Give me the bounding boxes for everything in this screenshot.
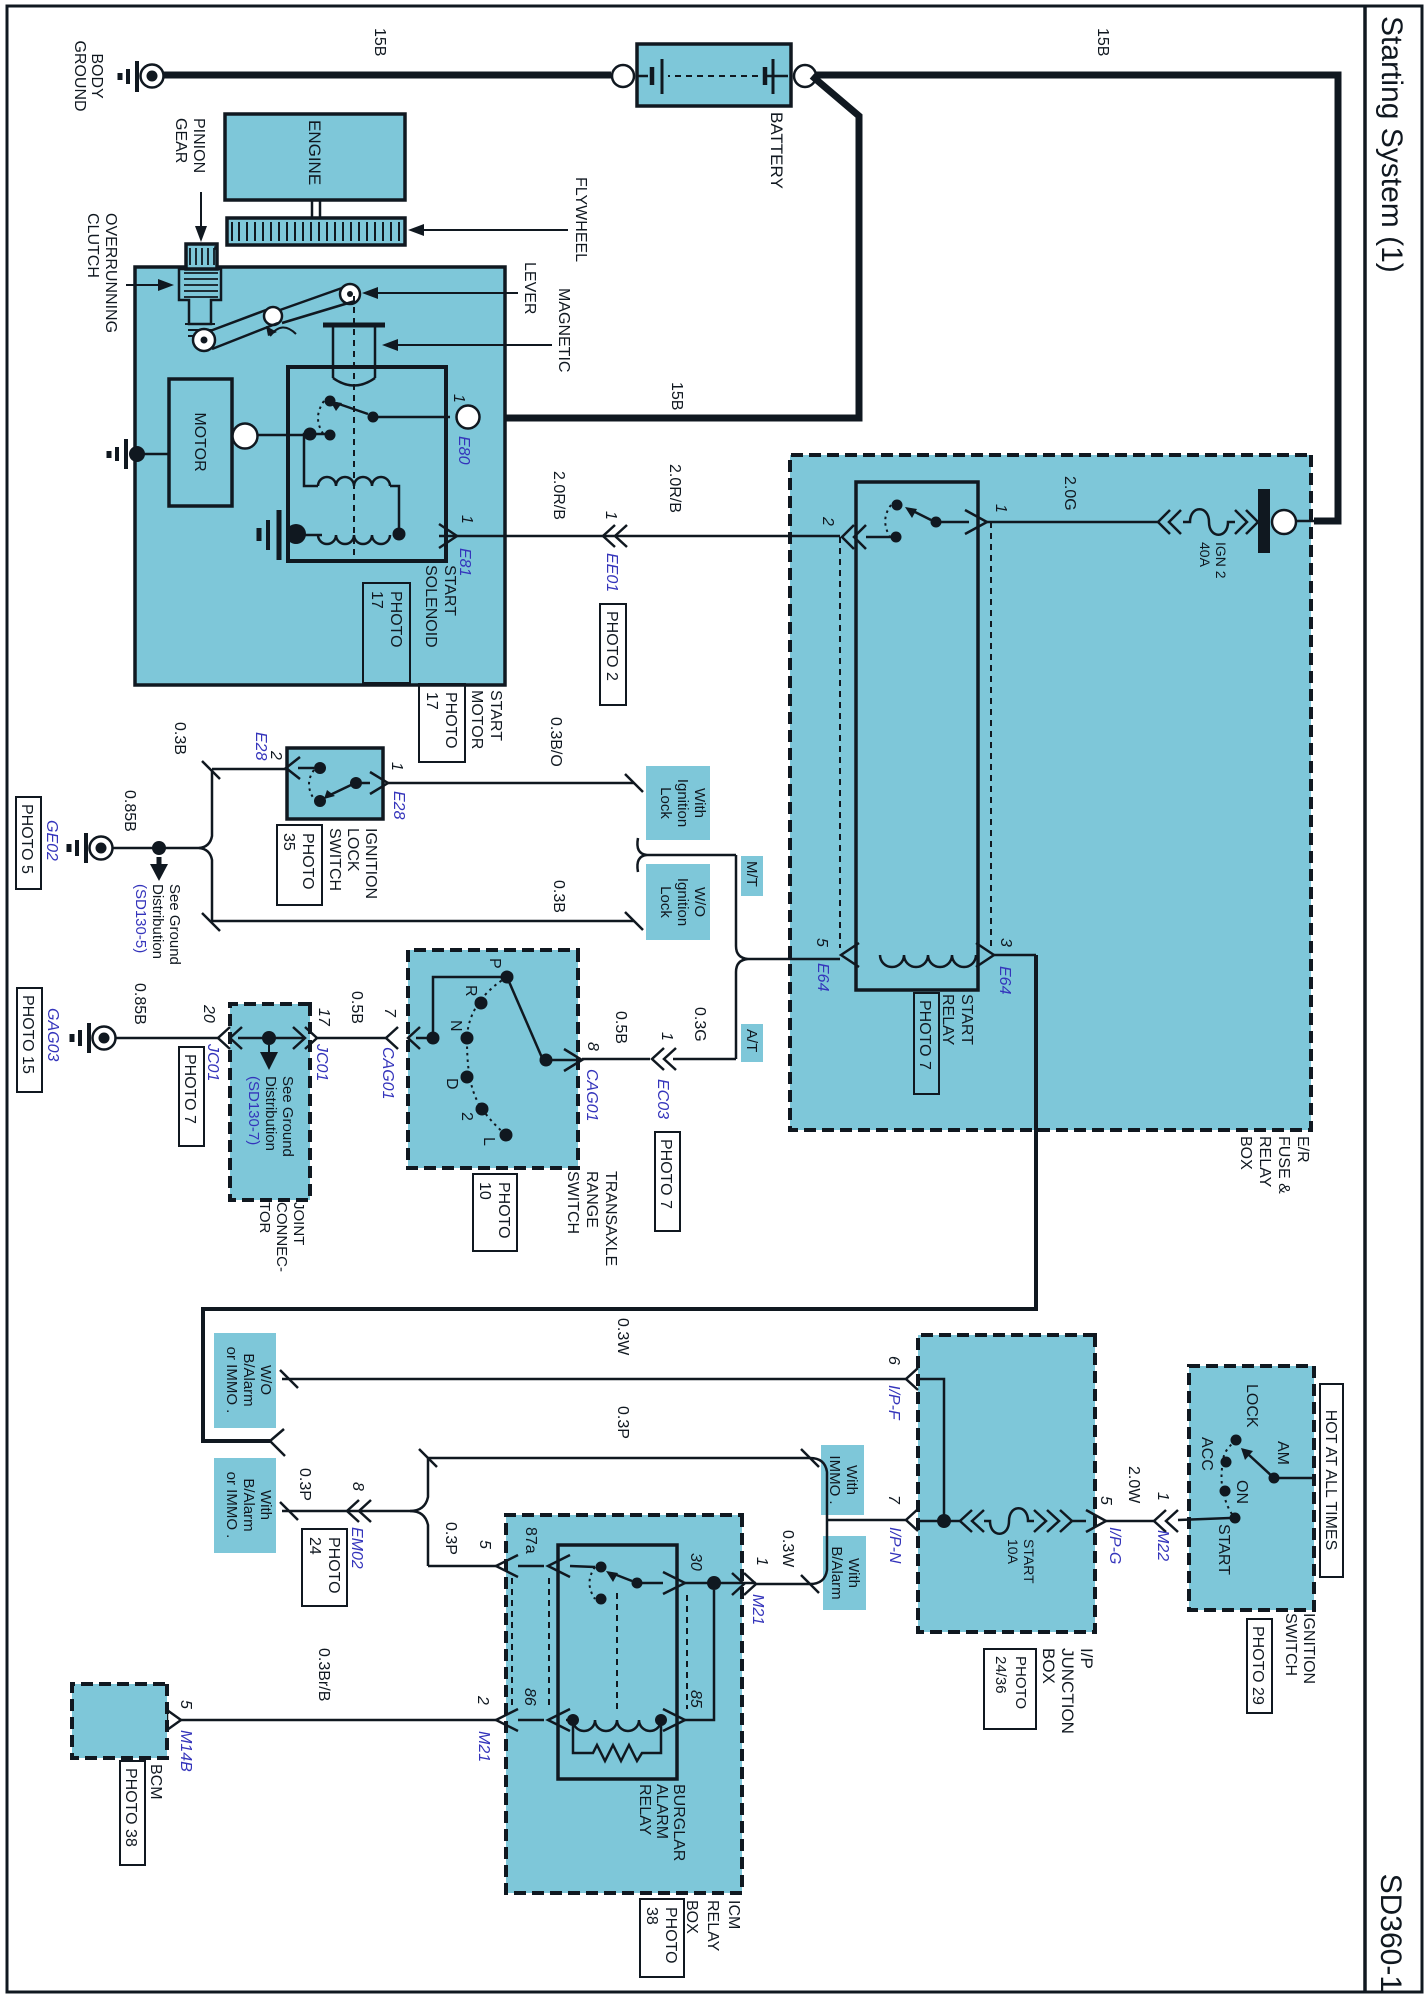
solenoid switch contacts: [257, 396, 450, 441]
svg-text:PINIONGEAR: PINIONGEAR: [172, 118, 207, 173]
svg-text:ENGINE: ENGINE: [305, 120, 324, 185]
wire M/T branch: [647, 854, 736, 857]
svg-text:Distribution: Distribution: [262, 1076, 279, 1151]
wire 0.3W to I/P-F: [280, 1370, 906, 1388]
svg-text:HOT AT ALL TIMES: HOT AT ALL TIMES: [1322, 1410, 1339, 1551]
battery B1: [636, 44, 791, 106]
E28 switch contacts: [309, 762, 362, 807]
label PINION GEAR with arrow: [172, 118, 207, 242]
svg-text:1: 1: [992, 504, 1009, 513]
label PHOTO 29: [1247, 1619, 1272, 1713]
svg-text:EC03: EC03: [654, 1079, 671, 1119]
svg-text:5: 5: [476, 1540, 493, 1549]
svg-text:7: 7: [381, 1008, 398, 1018]
solenoid hold-in coil: [302, 528, 406, 545]
svg-text:2: 2: [267, 750, 284, 760]
ignition lock switch box E28: [287, 748, 383, 819]
svg-text:2.0R/B: 2.0R/B: [550, 471, 567, 520]
wire 0.3B E28-2 to ground junction: [212, 768, 286, 771]
svg-text:JOINTCONNEC-TOR: JOINTCONNEC-TOR: [256, 1202, 307, 1272]
burglar relay pin 85: [663, 1690, 704, 1731]
svg-text:1: 1: [658, 1032, 675, 1041]
svg-text:PHOTO38: PHOTO38: [643, 1907, 679, 1964]
svg-text:15B: 15B: [1094, 28, 1111, 56]
svg-text:2.0G: 2.0G: [1061, 476, 1078, 511]
ICM pin 2 (M21): [474, 1695, 518, 1762]
wire pin5 to 87a: [518, 1566, 544, 1720]
svg-text:2.0R/B: 2.0R/B: [666, 464, 683, 513]
label PHOTO 24/36: [984, 1649, 1036, 1729]
svg-text:N: N: [447, 1020, 464, 1032]
overrunning clutch: [179, 248, 221, 336]
label PHOTO 17 (start motor): [419, 684, 465, 762]
svg-text:1: 1: [753, 1557, 770, 1566]
ICM pin 5 (M21): [476, 1540, 518, 1577]
transaxle range switch contacts: [427, 958, 581, 1146]
svg-text:PHOTO10: PHOTO10: [476, 1182, 512, 1239]
junction node GE02 branch: [152, 761, 220, 931]
svg-text:0.3P: 0.3P: [296, 1468, 313, 1501]
svg-text:17: 17: [315, 1008, 332, 1027]
E/R fuse and relay box: [790, 455, 1311, 1130]
svg-text:PHOTO24: PHOTO24: [306, 1537, 342, 1594]
svg-text:0.3B: 0.3B: [550, 880, 567, 913]
svg-text:MAGNETIC: MAGNETIC: [555, 288, 572, 372]
svg-text:LEVER: LEVER: [521, 262, 538, 314]
label PHOTO 24: [302, 1529, 347, 1606]
start motor box: [135, 267, 505, 685]
svg-text:(SD130-5): (SD130-5): [132, 884, 149, 953]
fuse START 10A: [944, 1508, 1072, 1584]
burglar relay resistor: [573, 1720, 661, 1761]
svg-text:M22: M22: [1154, 1530, 1171, 1561]
svg-text:PHOTO 2: PHOTO 2: [603, 611, 620, 681]
wire trunk E64-3 to B/Alarm fork: [203, 955, 1036, 1441]
label PHOTO 38 (ICM): [640, 1899, 684, 1977]
svg-text:See Ground: See Ground: [166, 884, 183, 965]
svg-text:I/P-F: I/P-F: [885, 1385, 902, 1421]
svg-text:0.3P: 0.3P: [614, 1406, 631, 1439]
I/P junction box: [918, 1335, 1095, 1632]
svg-text:0.3W: 0.3W: [779, 1530, 796, 1568]
wire 0.3B/O E28-1 up: [388, 774, 643, 792]
solenoid pull-in coil: [304, 434, 399, 534]
merge brace to I/P-N: [801, 1449, 906, 1593]
motor box: [169, 379, 232, 506]
svg-text:R: R: [462, 985, 479, 997]
svg-text:8: 8: [349, 1482, 366, 1491]
start relay contacts: [819, 500, 1009, 550]
svg-text:15B: 15B: [371, 28, 388, 56]
label OVERRUNNING CLUTCH with arrow: [84, 213, 174, 333]
svg-text:Distribution: Distribution: [149, 884, 166, 959]
start relay E64 dashed pin lines: [840, 522, 991, 950]
svg-text:L: L: [480, 1137, 497, 1146]
svg-text:PHOTO 29: PHOTO 29: [1249, 1626, 1266, 1705]
svg-text:1: 1: [388, 762, 405, 771]
svg-text:0.3G: 0.3G: [691, 1007, 708, 1042]
terminal I/P-N 7: [885, 1495, 918, 1564]
svg-text:E80: E80: [455, 436, 472, 465]
svg-text:AM: AM: [1274, 1441, 1291, 1465]
label PHOTO 5: [16, 797, 41, 889]
svg-text:1: 1: [450, 394, 467, 403]
label PHOTO 7 (JC01): [179, 1047, 204, 1146]
body ground: [120, 61, 164, 92]
svg-text:D: D: [443, 1078, 460, 1090]
svg-text:I/P-G: I/P-G: [1106, 1527, 1123, 1564]
start relay rectangle: [856, 482, 978, 990]
wire 0.3P With IMMO branch: [419, 1449, 810, 1467]
svg-text:86: 86: [521, 1688, 538, 1706]
svg-text:3: 3: [997, 938, 1014, 947]
battery terminal circles: [794, 65, 816, 87]
svg-text:M21: M21: [475, 1731, 492, 1762]
svg-text:LOCK: LOCK: [1243, 1384, 1260, 1428]
svg-text:7: 7: [885, 1495, 902, 1505]
wire 15B battery to body ground: [158, 72, 611, 79]
svg-text:5: 5: [177, 1700, 194, 1709]
fork W/O With B/Alarm: [270, 1429, 285, 1456]
label PHOTO 15: [17, 988, 42, 1092]
start relay coil: [813, 938, 1014, 995]
label box W/O Ignition Lock: [646, 864, 710, 940]
solenoid plunger dashed axis: [353, 296, 355, 560]
svg-text:TRANSAXLERANGESWITCH: TRANSAXLERANGESWITCH: [564, 1171, 619, 1266]
svg-text:M/T: M/T: [743, 861, 760, 887]
label box A/T: [741, 1024, 763, 1062]
burglar relay dashed actuator line: [616, 1593, 618, 1714]
label FLYWHEEL with arrow: [408, 177, 589, 262]
svg-text:PHOTO 38: PHOTO 38: [122, 1768, 139, 1847]
wire 2.0R/B E81 to E/R box: [457, 535, 840, 538]
wire 0.3W M21-1 branch: [756, 1583, 810, 1586]
svg-text:0.3B/O: 0.3B/O: [547, 717, 564, 767]
svg-text:JC01: JC01: [204, 1043, 221, 1081]
svg-text:M14B: M14B: [177, 1730, 194, 1772]
svg-text:E28: E28: [252, 732, 269, 761]
svg-text:0.5B: 0.5B: [348, 991, 365, 1024]
svg-text:2: 2: [819, 516, 836, 526]
wire A/T EC03 branch: [673, 1058, 736, 1061]
wire M/T A/T join to E64-5: [736, 855, 840, 1059]
svg-text:GE02: GE02: [43, 820, 60, 861]
svg-text:0.3Br/B: 0.3Br/B: [315, 1648, 332, 1701]
svg-text:PHOTO 7: PHOTO 7: [181, 1054, 198, 1124]
wire 0.3P to EM02: [280, 1502, 410, 1520]
svg-text:STARTMOTOR: STARTMOTOR: [468, 690, 504, 749]
burglar alarm relay rectangle: [558, 1545, 677, 1779]
connector M14B pin 5: [167, 1700, 194, 1772]
svg-text:CAG01: CAG01: [379, 1047, 396, 1099]
svg-text:M21: M21: [749, 1594, 766, 1625]
flywheel: [227, 218, 405, 245]
ICM relay box: [506, 1515, 742, 1893]
transaxle range switch box: [408, 950, 578, 1168]
svg-text:START: START: [1215, 1524, 1232, 1575]
svg-text:I/P-N: I/P-N: [886, 1527, 903, 1564]
svg-text:1: 1: [602, 511, 619, 520]
burglar relay coil: [567, 1714, 667, 1731]
label PHOTO 17 (solenoid): [363, 583, 410, 683]
svg-text:E64: E64: [814, 963, 831, 992]
see ground distribution arrow (JC01): [245, 1045, 296, 1157]
svg-text:E81: E81: [456, 548, 473, 576]
wire 15B battery to E80 (thick): [480, 76, 859, 418]
label PHOTO 10: [473, 1174, 517, 1251]
JC01 internal wire and junction: [238, 1031, 304, 1045]
motor ground: [109, 439, 169, 469]
ignition switch contacts: [1178, 1384, 1312, 1575]
E28 terminal 1: [351, 762, 407, 820]
wire 0.3P to ICM pin 5: [428, 1565, 498, 1568]
svg-text:0.3B: 0.3B: [171, 722, 188, 755]
svg-text:ACC: ACC: [1198, 1437, 1215, 1471]
fuse IGN2 40A: [1158, 489, 1296, 579]
svg-text:EE01: EE01: [603, 553, 620, 592]
svg-text:BODYGROUND: BODYGROUND: [71, 40, 105, 111]
svg-text:PHOTO 5: PHOTO 5: [18, 804, 35, 874]
svg-text:EM02: EM02: [348, 1527, 365, 1569]
svg-text:87a: 87a: [522, 1527, 539, 1554]
svg-text:5: 5: [813, 938, 830, 947]
wire 0.5B CAG01-7 to JC01-17: [316, 1037, 386, 1040]
svg-text:MOTOR: MOTOR: [191, 412, 208, 471]
label box M/T: [741, 856, 763, 896]
terminal E81: [439, 515, 475, 576]
start solenoid box: [288, 367, 446, 561]
svg-text:0.5B: 0.5B: [612, 1011, 629, 1044]
label LEVER with arrow: [362, 262, 538, 314]
svg-text:PHOTO35: PHOTO35: [280, 833, 316, 890]
engine box: [225, 114, 405, 200]
svg-text:IGNITIONLOCKSWITCH: IGNITIONLOCKSWITCH: [326, 828, 379, 899]
wire 0.3Br/B M21-2 to M14B: [178, 1719, 496, 1722]
wire 0.5B CAG01-8 to EC03: [582, 1058, 650, 1061]
svg-text:0.85B: 0.85B: [121, 790, 138, 832]
ground GE02: [43, 820, 113, 863]
label box With Ignition Lock: [646, 766, 710, 840]
connector EC03: [652, 1032, 676, 1119]
junction dot pin30/85: [685, 1576, 756, 1590]
pinion gear: [186, 244, 217, 269]
ignition switch box: [1189, 1366, 1314, 1610]
E28 terminal 2: [252, 732, 314, 779]
svg-text:8: 8: [584, 1042, 601, 1051]
wire 85 to junction: [683, 1590, 714, 1720]
svg-text:1: 1: [1154, 1492, 1171, 1501]
label MAGNETIC with arrow: [382, 288, 572, 372]
svg-text:2: 2: [458, 1112, 475, 1121]
svg-text:PHOTO 7: PHOTO 7: [657, 1139, 674, 1209]
terminal JC01-20: [200, 1004, 242, 1081]
label box With B/Alarm: [823, 1536, 866, 1610]
svg-text:PHOTO17: PHOTO17: [423, 692, 459, 749]
svg-text:E64: E64: [996, 966, 1013, 995]
svg-text:2: 2: [474, 1695, 491, 1705]
terminal CAG01-7: [379, 1008, 431, 1099]
svg-text:CAG01: CAG01: [583, 1069, 600, 1121]
svg-text:PHOTO 15: PHOTO 15: [19, 995, 36, 1074]
terminal JC01-17: [293, 1008, 332, 1081]
wire 0.3B W/O ignition lock branch: [212, 912, 643, 930]
burglar relay pin 30: [663, 1553, 704, 1594]
svg-text:PHOTO24/36: PHOTO24/36: [992, 1656, 1029, 1709]
svg-text:A/T: A/T: [743, 1029, 760, 1052]
label PHOTO 2: [600, 604, 626, 705]
svg-text:JC01: JC01: [313, 1043, 330, 1081]
svg-text:15B: 15B: [668, 382, 685, 410]
svg-text:E/RFUSE &RELAYBOX: E/RFUSE &RELAYBOX: [1237, 1136, 1311, 1194]
fork EM02 to With IMMO / ICM: [410, 1458, 428, 1566]
svg-text:5: 5: [1097, 1496, 1114, 1505]
label HOT AT ALL TIMES: [1320, 1384, 1343, 1577]
svg-text:2.0W: 2.0W: [1125, 1466, 1142, 1504]
ground GAG03: [44, 1008, 116, 1061]
see ground distribution arrow (GE02): [132, 857, 183, 965]
burglar relay pin 87a: [522, 1527, 595, 1577]
svg-text:E28: E28: [390, 791, 407, 820]
svg-text:OVERRUNNINGCLUTCH: OVERRUNNINGCLUTCH: [84, 213, 119, 333]
svg-text:BCM: BCM: [147, 1764, 164, 1800]
joint connector JC01 box: [230, 1004, 310, 1200]
ICM pin 1 (M21): [732, 1557, 770, 1625]
terminal E80: [450, 394, 480, 465]
label PHOTO 35: [277, 825, 322, 905]
solenoid ground: [259, 510, 306, 560]
svg-text:Starting System (1): Starting System (1): [1375, 16, 1408, 273]
label PHOTO 38 (BCM): [120, 1761, 145, 1865]
svg-text:See Ground: See Ground: [279, 1076, 296, 1157]
svg-text:I/PJUNCTIONBOX: I/PJUNCTIONBOX: [1039, 1648, 1096, 1734]
svg-text:SD360-1: SD360-1: [1374, 1874, 1407, 1992]
terminal I/P-G 5: [1072, 1496, 1123, 1564]
merge brace ignition lock branches: [637, 838, 647, 872]
svg-text:6: 6: [885, 1356, 902, 1365]
motor terminal circle: [233, 424, 258, 449]
wire 2.0G fuse to start relay: [987, 521, 1158, 524]
connector EM02: [347, 1482, 371, 1569]
BCM box M14B: [72, 1684, 167, 1758]
wire 2.0W I/P-G to M22: [1106, 1520, 1154, 1523]
svg-text:(SD130-7): (SD130-7): [245, 1076, 262, 1145]
svg-text:ICMRELAYBOX: ICMRELAYBOX: [683, 1900, 742, 1952]
svg-text:0.3W: 0.3W: [614, 1318, 631, 1356]
wire 0.85B JC01-20 to GAG03: [115, 1037, 218, 1040]
wire 15B battery to IGN2 fuse (thick top run): [816, 75, 1338, 521]
terminal I/P-F 6: [885, 1356, 918, 1421]
svg-text:1: 1: [458, 515, 475, 524]
label box W/O B/Alarm or IMMO: [214, 1333, 276, 1428]
svg-text:IGNITIONSWITCH: IGNITIONSWITCH: [1282, 1613, 1317, 1684]
label PHOTO 7 (EC03): [655, 1132, 680, 1231]
connector M22: [1154, 1492, 1178, 1561]
terminal CAG01-8: [564, 1042, 601, 1121]
I/P box internal wiring: [918, 1379, 951, 1528]
svg-text:ON: ON: [1233, 1480, 1250, 1504]
svg-text:GAG03: GAG03: [44, 1008, 61, 1061]
label box With B/Alarm or IMMO: [214, 1458, 276, 1553]
burglar alarm relay contacts: [590, 1562, 664, 1605]
svg-text:30: 30: [687, 1553, 704, 1571]
svg-text:PHOTO 7: PHOTO 7: [916, 1000, 933, 1070]
burglar relay pin 86: [521, 1688, 573, 1731]
magnetic switch core bracket: [323, 325, 385, 386]
label PHOTO 7 (start relay): [914, 993, 939, 1094]
svg-text:0.85B: 0.85B: [131, 983, 148, 1025]
svg-text:20: 20: [200, 1004, 217, 1023]
ICM dashed pin lines: [512, 1578, 687, 1709]
svg-text:85: 85: [687, 1690, 704, 1708]
engine-flywheel coupling: [312, 200, 320, 219]
wire 0.85B GE02 to junction: [113, 847, 161, 850]
label box With IMMO: [821, 1445, 864, 1515]
svg-text:FLYWHEEL: FLYWHEEL: [572, 177, 589, 262]
lever linkage: [193, 284, 360, 351]
connector EE01: [602, 511, 627, 592]
svg-text:0.3P: 0.3P: [442, 1522, 459, 1555]
svg-text:BATTERY: BATTERY: [767, 112, 786, 189]
svg-text:P: P: [486, 958, 503, 969]
